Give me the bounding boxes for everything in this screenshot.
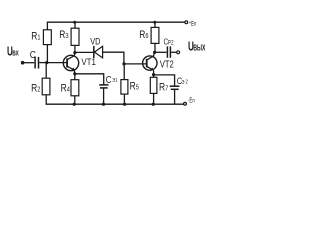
label VD	[90, 35, 100, 46]
label Uvyx	[188, 40, 206, 54]
svg-text:R: R	[130, 81, 136, 93]
node VT1 collector	[73, 51, 76, 54]
node rail-R7	[152, 103, 155, 106]
wire R1 bottom to input node	[46, 45, 48, 63]
capacitor Ce2 plates	[170, 86, 180, 89]
svg-text:п: п	[194, 21, 196, 28]
wire Cp2 to output terminal	[171, 51, 176, 53]
svg-text:R: R	[31, 83, 37, 95]
node rail-R3	[73, 21, 76, 24]
label +Ep	[189, 20, 196, 28]
label VT1	[81, 57, 96, 68]
wire R7 to bottom rail	[153, 93, 155, 104]
resistor R5	[121, 80, 128, 95]
label Uvx	[7, 45, 19, 59]
svg-text:5: 5	[136, 84, 139, 92]
svg-text:3: 3	[65, 32, 68, 40]
label R4	[61, 83, 71, 95]
wire Ce2 to bottom rail	[174, 89, 176, 104]
wire emitter node to Ce1	[75, 74, 104, 85]
wire Ce1 to bottom rail	[103, 88, 105, 104]
wire node A to VT1 base	[47, 62, 67, 64]
label Ce1	[106, 74, 118, 85]
transistor VT1	[63, 53, 78, 74]
node rail-R5	[123, 103, 126, 106]
wire input lead	[23, 62, 35, 64]
svg-text:Р2: Р2	[168, 40, 174, 47]
svg-text:7: 7	[165, 85, 168, 93]
resistor R7	[150, 77, 157, 93]
svg-text:ВЫХ: ВЫХ	[193, 44, 205, 52]
svg-text:VT1: VT1	[81, 57, 96, 68]
wire R3 bottom to collector node	[74, 45, 76, 52]
resistor R1	[43, 30, 51, 45]
svg-text:R: R	[59, 29, 65, 41]
wire node A to R2	[45, 63, 47, 79]
wire C to node A	[39, 62, 47, 64]
wire VT2 collector to Cp2	[155, 51, 167, 53]
resistor R4	[71, 80, 79, 96]
label R5	[130, 81, 140, 93]
label C	[30, 49, 36, 60]
svg-text:R: R	[31, 31, 37, 43]
svg-text:C: C	[30, 49, 36, 60]
svg-text:2: 2	[37, 86, 40, 94]
svg-text:6: 6	[145, 32, 148, 40]
svg-text:R: R	[139, 29, 145, 41]
wire VT1 emitter to R4	[74, 74, 76, 80]
label R1	[31, 31, 41, 43]
terminal +Ep	[185, 21, 188, 24]
wire node B to VT2 base	[124, 63, 146, 65]
svg-text:Э1: Э1	[112, 78, 118, 85]
node VT2 emitter	[152, 73, 155, 76]
label R7	[159, 81, 169, 93]
terminal input dot	[21, 61, 25, 65]
svg-text:VT2: VT2	[160, 58, 174, 69]
node A (R1/R2/base VT1)	[45, 61, 48, 64]
wire VT2 emitter to R7	[153, 75, 155, 78]
node VT2 collector	[153, 51, 156, 54]
capacitor Ce1 plates	[99, 85, 108, 88]
wire R6 bottom to VT2 collector node	[154, 43, 156, 52]
wire R6 top to rail	[154, 22, 156, 27]
node VT1 emitter	[73, 72, 76, 75]
wire collector node to diode	[75, 51, 94, 53]
svg-text:R: R	[61, 83, 67, 95]
wire R4 to bottom rail	[74, 96, 76, 104]
label R3	[59, 29, 69, 41]
svg-text:C: C	[106, 74, 112, 85]
wire bottom rail	[46, 103, 185, 105]
terminal output	[177, 51, 180, 54]
transistor VT2	[143, 52, 157, 74]
svg-text:VD: VD	[90, 35, 100, 46]
resistor R2	[42, 78, 50, 95]
wire top supply rail	[47, 22, 185, 30]
wire R3 top to rail	[74, 22, 76, 28]
node rail-Ce1	[102, 103, 105, 106]
label R6	[139, 29, 149, 41]
node rail-R6	[153, 21, 156, 24]
label VT2	[160, 58, 174, 69]
svg-text:ВХ: ВХ	[12, 49, 19, 57]
svg-text:1: 1	[37, 34, 40, 42]
resistor R3	[71, 28, 79, 45]
svg-text:4: 4	[67, 86, 70, 94]
capacitor C plates	[35, 57, 38, 69]
node rail-R4	[73, 103, 76, 106]
wire node B to R5	[123, 64, 125, 80]
diode VD	[94, 46, 103, 58]
node B (VD/R5/base VT2)	[122, 62, 125, 65]
wire R2 to bottom rail	[45, 95, 47, 104]
wire diode to node B	[103, 52, 124, 64]
label Ce2	[177, 75, 188, 86]
label Cp2	[164, 36, 174, 46]
wire emitter node to Ce2	[154, 75, 175, 86]
label -Ep	[188, 97, 195, 105]
wire R5 to bottom rail	[123, 94, 125, 104]
capacitor Cp2 plates	[167, 46, 170, 57]
terminal -Ep	[184, 102, 187, 105]
svg-text:Э: Э	[181, 79, 184, 86]
svg-text:R: R	[159, 81, 165, 93]
svg-text:п: п	[192, 98, 194, 105]
label R2	[31, 83, 41, 95]
resistor R6	[151, 27, 159, 43]
svg-text:2: 2	[186, 79, 189, 86]
